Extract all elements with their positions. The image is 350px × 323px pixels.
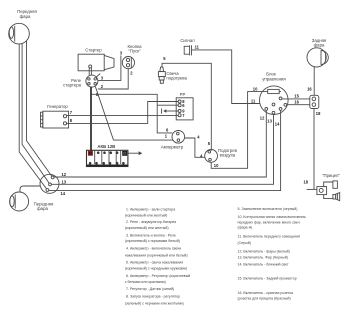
svg-text:"Прицеп": "Прицеп": [322, 173, 341, 178]
svg-text:14: 14: [275, 121, 280, 126]
svg-text:7. Регулятор - Датчик (синий): 7. Регулятор - Датчик (синий): [126, 287, 174, 291]
svg-text:управления: управления: [262, 77, 286, 82]
svg-text:10: 10: [253, 87, 258, 92]
svg-text:10. Контрольная синяя лампа вк: 10. Контрольная синяя лампа включения-: [238, 215, 308, 219]
svg-text:(коричневый) с чередными кружк: (коричневый) с чередными кружками): [125, 267, 187, 271]
svg-text:(коричневый) или желтый): (коричневый) или желтый): [125, 226, 169, 230]
svg-text:фара: фара: [20, 14, 31, 19]
svg-text:11: 11: [195, 45, 200, 50]
svg-text:15. Включатель - Задний прожек: 15. Включатель - Задний прожектор: [238, 276, 297, 280]
svg-text:11. Включатель переднего освещ: 11. Включатель переднего освещения: [238, 235, 301, 239]
svg-text:12. Включатель - фары (Белый): 12. Включатель - фары (Белый): [238, 249, 290, 253]
svg-text:14. Включатель - ближний свет: 14. Включатель - ближний свет: [238, 263, 289, 267]
svg-text:4. Амперметр - включатель свеч: 4. Амперметр - включатель свечи: [126, 247, 181, 251]
svg-text:(фара-А): (фара-А): [238, 226, 253, 230]
svg-text:(Серый): (Серый): [238, 241, 251, 245]
svg-text:РР: РР: [180, 92, 186, 97]
svg-text:передних фар, включение много: передних фар, включение много свеч: [238, 220, 300, 224]
svg-text:АКБ 12В: АКБ 12В: [97, 144, 115, 149]
svg-text:15: 15: [294, 93, 299, 98]
svg-text:фара: фара: [37, 206, 48, 211]
svg-text:11: 11: [251, 98, 256, 103]
svg-text:12: 12: [62, 172, 67, 177]
svg-text:6. Амперметр - Регулятор (кори: 6. Амперметр - Регулятор (коричневый: [126, 274, 190, 278]
svg-text:1. Амперметр - вали стартера: 1. Амперметр - вали стартера: [126, 208, 175, 212]
svg-text:с белыми или красными): с белыми или красными): [125, 280, 166, 284]
svg-text:Генератор: Генератор: [47, 104, 68, 109]
svg-text:13. Включатель. Фар (Черный): 13. Включатель. Фар (Черный): [238, 256, 288, 260]
svg-text:воздуха: воздуха: [220, 152, 236, 157]
svg-text:(зеленый) с черными или желтым: (зеленый) с черными или желтыми): [125, 301, 184, 305]
svg-text:(коричневый) с порывами белый): (коричневый) с порывами белый): [125, 239, 180, 243]
svg-text:фара: фара: [314, 42, 325, 47]
svg-text:13: 13: [62, 179, 67, 184]
svg-text:Амперметр: Амперметр: [161, 144, 184, 149]
svg-text:14: 14: [61, 191, 66, 196]
svg-text:5. Заземление включателя (черн: 5. Заземление включателя (черный): [238, 207, 298, 211]
svg-text:накаливания (коричневый или бе: накаливания (коричневый или белый): [125, 253, 188, 257]
svg-text:10: 10: [214, 163, 219, 168]
svg-text:18: 18: [316, 111, 321, 116]
svg-text:2. Реле - аккумулятор-батарея: 2. Реле - аккумулятор-батарея: [126, 220, 176, 224]
svg-text:Стартер: Стартер: [85, 47, 102, 52]
svg-text:(коричневый или желтый): (коричневый или желтый): [125, 214, 168, 218]
svg-text:Сигнал: Сигнал: [180, 38, 195, 43]
svg-text:(розетка для прицепа (Красный): (розетка для прицепа (Красный): [238, 297, 291, 301]
svg-text:5. Амперметр - свеча накаливан: 5. Амперметр - свеча накаливания: [126, 261, 183, 265]
svg-text:16. Включатель - красная розет: 16. Включатель - красная розетка: [238, 291, 293, 295]
svg-text:16: 16: [307, 87, 312, 92]
svg-text:"Пуск": "Пуск": [128, 48, 141, 53]
svg-text:3. Включатель и кнопка - Реле: 3. Включатель и кнопка - Реле: [126, 233, 176, 237]
svg-text:стартера: стартера: [63, 82, 81, 87]
svg-text:8. Запуск генератора - регулят: 8. Запуск генератора - регулятор: [126, 294, 180, 298]
svg-text:12: 12: [260, 115, 265, 120]
svg-text:подогрева: подогрева: [166, 75, 187, 80]
svg-text:16: 16: [294, 99, 299, 104]
svg-text:18: 18: [304, 180, 309, 185]
svg-text:13: 13: [267, 118, 272, 123]
